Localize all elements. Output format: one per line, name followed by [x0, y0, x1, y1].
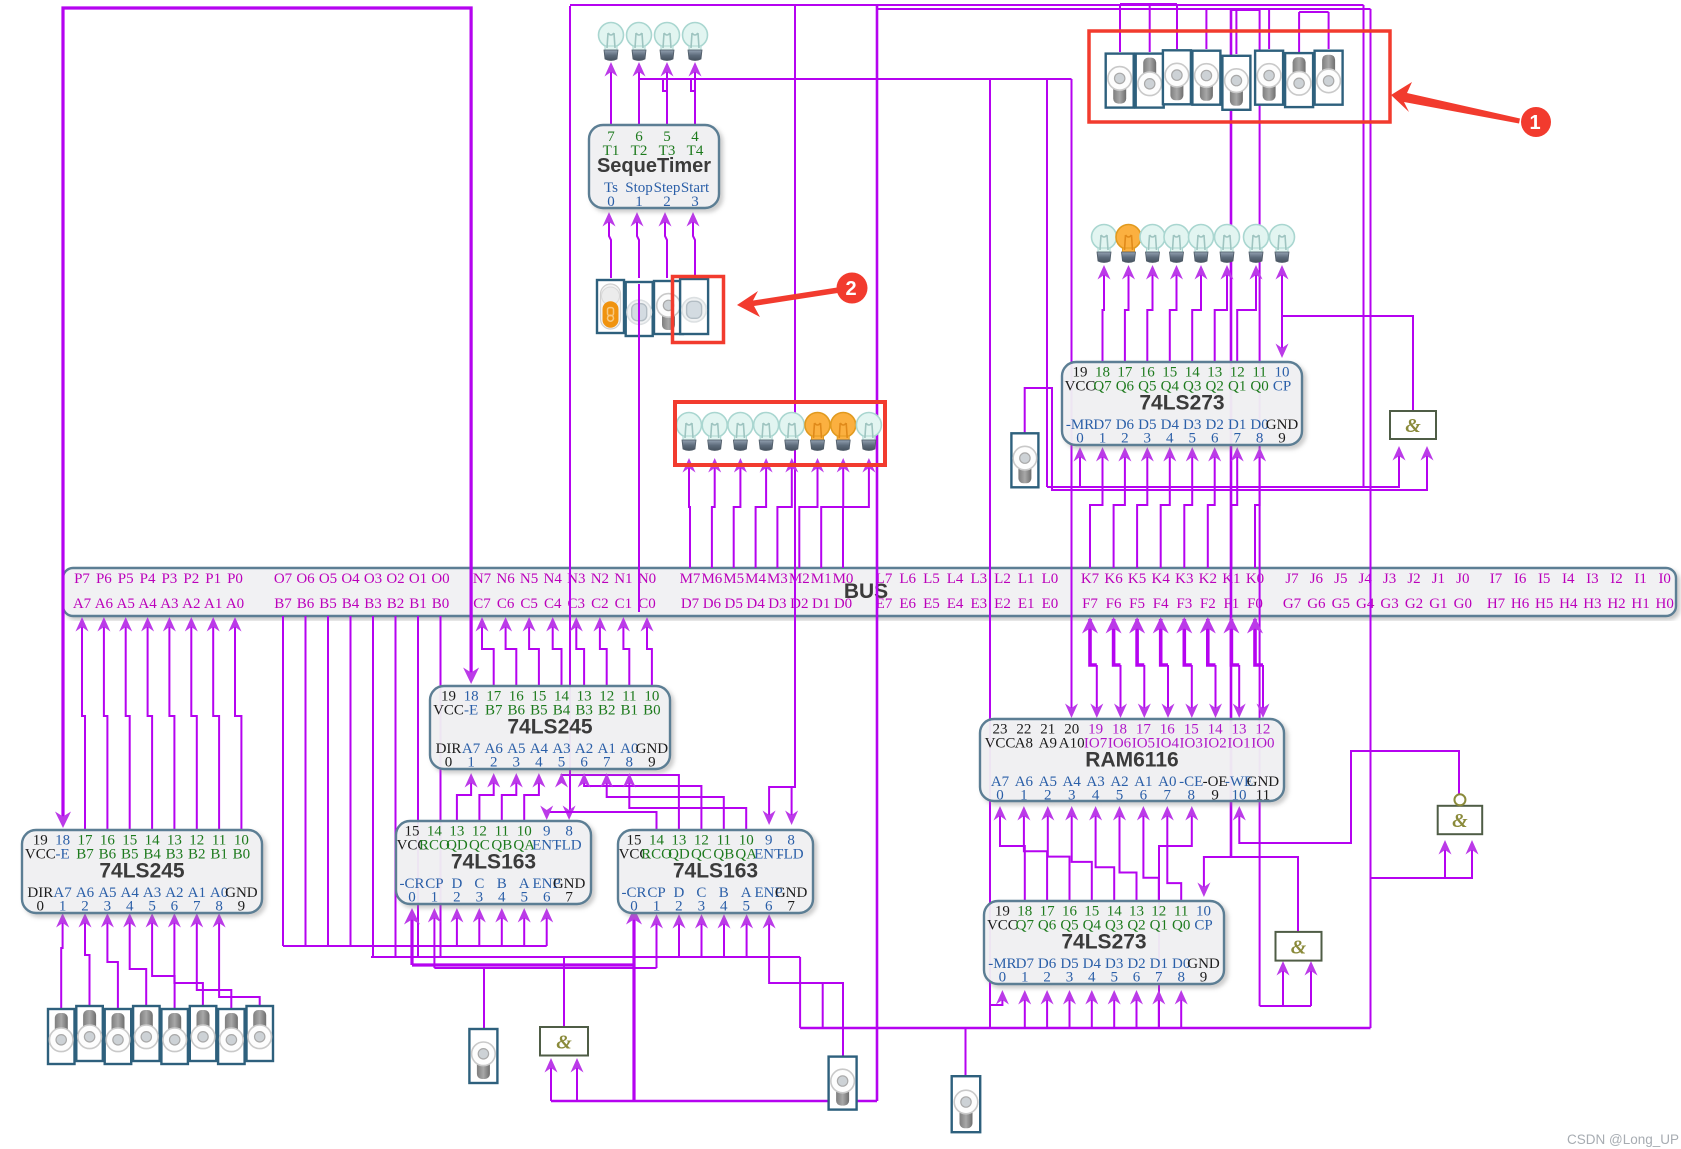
- svg-text:VCC: VCC: [25, 847, 56, 863]
- svg-text:Q6: Q6: [1116, 379, 1135, 395]
- wire net G1-feed vertical x1047: [1046, 79, 1048, 487]
- svg-text:Q1: Q1: [1228, 379, 1246, 395]
- wire rail y878 to G2 inputs: [1371, 840, 1479, 878]
- svg-text:I4: I4: [1562, 571, 1575, 587]
- svg-text:Q7: Q7: [1093, 379, 1112, 395]
- wire U5 Q2 to U3 A6: [479, 773, 500, 821]
- wire rail y1028 bottom right: [800, 1027, 1370, 1029]
- red annotation arrow 2: [737, 273, 868, 318]
- switch S2 (Stop) button: [626, 282, 653, 336]
- wire net long vertical x1259 from top to 74LS273 U8 area: [1259, 10, 1261, 1006]
- svg-text:3: 3: [1066, 970, 1074, 986]
- wire U5 Q3 to U3 A7: [457, 773, 478, 821]
- wire tap rail to U8 D7: [1018, 990, 1031, 1028]
- wire switch SW7 to U2 A0: [213, 913, 260, 1006]
- wire switch S11 to G1 input b: [1025, 388, 1434, 490]
- chip U5 74LS163: [396, 821, 591, 906]
- svg-text:74LS245: 74LS245: [99, 860, 185, 883]
- wire net top rail y9: [877, 8, 1371, 10]
- wire net T-rail horizontal y79 from SequeTimer T2: [639, 78, 1072, 80]
- wire bidir U7 IO6 leg: [1114, 665, 1127, 718]
- red annotation box 1: [1089, 31, 1390, 122]
- wire net top rail y5: [570, 4, 1364, 6]
- wire net -LD2 from top rail x795: [785, 5, 798, 825]
- svg-text:H2: H2: [1607, 596, 1625, 612]
- svg-text:11: 11: [1256, 788, 1270, 804]
- svg-text:2: 2: [845, 278, 856, 300]
- svg-text:4: 4: [1166, 431, 1174, 447]
- svg-text:O5: O5: [319, 571, 337, 587]
- svg-text:O3: O3: [364, 571, 382, 587]
- wire SW bank sw7: [1298, 12, 1300, 52]
- wire tap G3 input a: [1277, 961, 1290, 1006]
- wire U4 Q4 to lamp LR3: [1170, 265, 1183, 362]
- wire U5 Q1 to U3 A5: [502, 773, 523, 821]
- svg-text:3: 3: [691, 194, 699, 210]
- watermark CSDN: [1567, 1132, 1679, 1147]
- lamp LM0: [677, 413, 702, 451]
- wire net CP U4 and lamp LR7: [1276, 265, 1289, 358]
- svg-text:IO1: IO1: [1227, 736, 1250, 752]
- switch bank SWL2: [105, 1009, 132, 1064]
- wire BUS K4 to U4 D4: [1161, 447, 1177, 568]
- wire rail y4 switches: [1120, 3, 1177, 5]
- svg-text:4: 4: [1088, 970, 1096, 986]
- wire tap G4 input b: [571, 1058, 584, 1101]
- svg-text:H0: H0: [1656, 596, 1674, 612]
- svg-text:5: 5: [520, 890, 528, 906]
- svg-text:N7: N7: [473, 571, 492, 587]
- wire U3 B7 to BUS C7: [476, 617, 494, 686]
- svg-text:H3: H3: [1583, 596, 1601, 612]
- wire net vertical x877 top rail to bottom rail: [876, 5, 879, 1101]
- wire BUS K1 to U4 D1: [1231, 447, 1244, 568]
- svg-text:74LS163: 74LS163: [451, 851, 536, 874]
- svg-text:VCC: VCC: [985, 736, 1016, 752]
- svg-text:P6: P6: [96, 571, 112, 587]
- wire bidir U7 IO2 leg: [1209, 665, 1222, 718]
- wire band Y2 to U6 inputs: [371, 956, 800, 958]
- wire tap band Y2 to U6 pin x724: [718, 914, 731, 957]
- svg-text:6: 6: [1140, 788, 1148, 804]
- red annotation arrow 1: [1391, 82, 1551, 137]
- wire bidir BUS F3 leg: [1176, 617, 1192, 665]
- wire tap rail to U8 D6: [1041, 990, 1054, 1028]
- svg-text:2: 2: [663, 194, 671, 210]
- svg-text:Q1: Q1: [1150, 918, 1168, 934]
- svg-text:-E: -E: [464, 703, 478, 719]
- svg-text:N5: N5: [520, 571, 538, 587]
- wire U3 B5 to BUS C5: [523, 617, 539, 686]
- svg-text:CP: CP: [1273, 379, 1291, 395]
- svg-text:9: 9: [1278, 431, 1286, 447]
- wire bidir BUS F2 leg: [1200, 617, 1216, 665]
- svg-text:K4: K4: [1152, 571, 1171, 587]
- wire tap band Y1 to U5 pin x546: [540, 908, 553, 946]
- svg-text:9: 9: [648, 755, 656, 771]
- lamp LR2: [1140, 225, 1165, 263]
- svg-text:M6: M6: [701, 571, 722, 587]
- wire tap band Y2 to U6 pin x701: [695, 914, 708, 957]
- wire BUS B5 down: [327, 616, 329, 946]
- wire switch S3 to SequeTimer pin2: [659, 212, 672, 278]
- wire switch S9 to CP band: [483, 968, 485, 1029]
- svg-text:L2: L2: [994, 571, 1011, 587]
- switch bank SWL4: [161, 1009, 188, 1064]
- svg-text:7: 7: [603, 755, 611, 771]
- wire tap band Y1 to U5 pin x479: [473, 908, 486, 946]
- wire bidir BUS F6 leg: [1106, 617, 1122, 665]
- wire U6 Q1 to U3 A1: [600, 773, 724, 830]
- svg-text:P3: P3: [161, 571, 177, 587]
- svg-text:F6: F6: [1106, 596, 1122, 612]
- svg-text:4: 4: [126, 899, 134, 915]
- chip U6 74LS163: [618, 830, 813, 915]
- wire switch SW3 to U2 A4: [123, 913, 146, 1006]
- svg-text:F7: F7: [1082, 596, 1098, 612]
- wire BUS K6 to U4 D6: [1114, 447, 1132, 568]
- lamp LM3: [754, 413, 779, 451]
- svg-text:B3: B3: [364, 596, 382, 612]
- wire Stop net over switch: [638, 284, 640, 566]
- svg-text:IO3: IO3: [1180, 736, 1203, 752]
- wire G2 output to U7 -WE: [1233, 751, 1459, 843]
- wire SequeTimer T4 to lamp: [689, 62, 702, 125]
- svg-text:&: &: [1291, 936, 1307, 958]
- svg-text:F2: F2: [1200, 596, 1216, 612]
- svg-text:&: &: [1405, 415, 1421, 437]
- svg-text:6: 6: [543, 890, 551, 906]
- svg-text:D7: D7: [681, 596, 700, 612]
- switch bank SWT2: [1163, 50, 1191, 104]
- svg-text:1: 1: [59, 899, 67, 915]
- wire net -E loop to U2/U3 pin18: [55, 8, 479, 828]
- wire rail y12 sw7 sw8: [1299, 11, 1329, 13]
- svg-text:L5: L5: [923, 571, 940, 587]
- svg-text:6: 6: [580, 755, 588, 771]
- svg-text:8: 8: [1187, 788, 1195, 804]
- svg-text:A10: A10: [1059, 736, 1085, 752]
- svg-text:A4: A4: [138, 596, 157, 612]
- lamp LM7: [856, 413, 881, 451]
- wire BUS B2 down: [395, 616, 397, 957]
- switch bank SWL6: [218, 1009, 245, 1064]
- wire SW bank sw6: [1268, 9, 1270, 49]
- svg-text:6: 6: [171, 899, 179, 915]
- svg-text:6: 6: [1211, 431, 1219, 447]
- lamp LR4: [1189, 225, 1214, 263]
- svg-text:P1: P1: [205, 571, 221, 587]
- wire switch SW6 to U2 A1: [190, 913, 231, 1009]
- svg-text:IO2: IO2: [1203, 736, 1226, 752]
- svg-text:&: &: [556, 1031, 572, 1053]
- svg-text:A6: A6: [95, 596, 114, 612]
- chip U7 RAM6116: [980, 719, 1284, 804]
- svg-text:K6: K6: [1104, 571, 1123, 587]
- NAND gate G2: [1438, 794, 1483, 834]
- wire BUS B7 down: [282, 616, 284, 946]
- wire bidir U7 IO5 leg: [1138, 665, 1151, 718]
- wire tap band Y2 to U6 pin x746: [740, 914, 753, 957]
- wire bidir U7 IO7 leg: [1090, 665, 1103, 718]
- wire bidir BUS F7 leg: [1082, 617, 1098, 665]
- wire tap -CR U5: [404, 908, 420, 965]
- wire SequeTimer T3 to lamp: [661, 62, 674, 125]
- svg-text:H4: H4: [1559, 596, 1578, 612]
- switch bank SWT3: [1192, 51, 1220, 105]
- wire tap band Y1 to U5 pin x456: [450, 908, 463, 946]
- wire BUS M4 to lamp LM3: [756, 458, 773, 568]
- wire U8 Q4 to U7 A4: [1065, 806, 1092, 901]
- svg-text:L3: L3: [970, 571, 987, 587]
- svg-text:C2: C2: [591, 596, 609, 612]
- wire tap CP U5: [428, 908, 441, 968]
- wire branch to U6 ENT: [763, 787, 795, 825]
- red annotation box 3 middle lamps: [675, 402, 885, 465]
- svg-text:K2: K2: [1199, 571, 1217, 587]
- wire U4 Q7 to lamp LR0: [1098, 265, 1111, 362]
- svg-text:M3: M3: [767, 571, 788, 587]
- wire tap band Y2 to U6 pin x679: [673, 914, 686, 957]
- svg-text:7: 7: [1155, 970, 1163, 986]
- wire U3 B0 to BUS C0: [641, 617, 654, 686]
- wire bidir U7 IO3 leg: [1185, 665, 1198, 718]
- svg-text:P7: P7: [74, 571, 90, 587]
- svg-text:3: 3: [1068, 788, 1076, 804]
- svg-text:2: 2: [490, 755, 498, 771]
- svg-text:4: 4: [720, 899, 728, 915]
- wire net vertical x1371 to AND G2 input rail: [1370, 9, 1372, 878]
- svg-text:I7: I7: [1490, 571, 1503, 587]
- svg-text:L0: L0: [1042, 571, 1059, 587]
- svg-text:2: 2: [81, 899, 89, 915]
- svg-text:1: 1: [1020, 788, 1028, 804]
- svg-text:D5: D5: [725, 596, 743, 612]
- svg-text:B6: B6: [297, 596, 315, 612]
- svg-text:A2: A2: [182, 596, 200, 612]
- svg-text:H7: H7: [1487, 596, 1506, 612]
- svg-text:G0: G0: [1454, 596, 1472, 612]
- lamp LR0: [1092, 225, 1117, 263]
- switch bank SWL5: [190, 1006, 217, 1061]
- svg-text:M4: M4: [745, 571, 766, 587]
- svg-text:7: 7: [193, 899, 201, 915]
- svg-text:Q0: Q0: [1172, 918, 1190, 934]
- svg-text:CSDN @Long_UP: CSDN @Long_UP: [1567, 1132, 1679, 1147]
- wire switch SW1 to U2 A6: [79, 913, 92, 1006]
- wire tap rail to U8 D0: [1175, 990, 1188, 1028]
- svg-text:A7: A7: [73, 596, 92, 612]
- wire bidir BUS F1 leg: [1223, 617, 1239, 665]
- svg-text:0: 0: [996, 788, 1004, 804]
- svg-text:74LS273: 74LS273: [1139, 392, 1224, 415]
- wire net -CR vertical U6: [626, 908, 642, 1101]
- wire BUS B3 down: [372, 616, 374, 957]
- svg-text:B0: B0: [643, 703, 661, 719]
- svg-text:&: &: [1452, 810, 1468, 832]
- wire switch S1 to SequeTimer pin0: [603, 212, 616, 278]
- wire net vertical x1363 to AND G1 input rail: [1363, 5, 1365, 487]
- wire bidir BUS F0 leg: [1247, 617, 1263, 665]
- lamp LM1: [702, 413, 727, 451]
- svg-text:I1: I1: [1634, 571, 1647, 587]
- svg-text:B5: B5: [319, 596, 337, 612]
- lamp LT2 (T3): [655, 23, 680, 61]
- wire BUS K0 to U4 D0: [1253, 447, 1266, 568]
- wire net SequeTimer Stop wire down to BUS: [638, 334, 640, 612]
- svg-text:C0: C0: [638, 596, 656, 612]
- switch S4 (Start) button: [680, 279, 708, 334]
- svg-text:-E: -E: [56, 847, 70, 863]
- wire U3 B1 to BUS C1: [617, 617, 630, 686]
- svg-text:8: 8: [1177, 970, 1185, 986]
- wire SequeTimer T1 to lamp: [605, 62, 618, 125]
- wire tap G4 input a: [545, 1058, 558, 1101]
- wire SequeTimer T2 to lamp: [633, 62, 646, 125]
- wire band Y1 to U5 inputs: [283, 945, 547, 947]
- svg-text:4: 4: [535, 755, 543, 771]
- wire SW bank sw3: [1176, 4, 1178, 49]
- switch S10: [829, 1057, 857, 1110]
- svg-text:J6: J6: [1310, 571, 1324, 587]
- wire SW bank sw5: [1235, 10, 1237, 54]
- svg-text:8: 8: [215, 899, 223, 915]
- switch bank SWT4: [1222, 56, 1250, 110]
- svg-text:0: 0: [630, 899, 638, 915]
- switch S1 (Ts) toggle on: [597, 280, 624, 333]
- svg-text:D6: D6: [703, 596, 722, 612]
- wire BUS K3 to U4 D3: [1184, 447, 1199, 568]
- svg-text:I6: I6: [1514, 571, 1527, 587]
- red annotation box 2: [673, 277, 724, 343]
- lamp LR3: [1164, 225, 1189, 263]
- svg-text:5: 5: [742, 899, 750, 915]
- svg-text:74LS245: 74LS245: [507, 716, 593, 739]
- switch bank SWL3: [133, 1006, 160, 1061]
- switch S3 (Step) knob: [654, 281, 683, 334]
- wire tap rail to U8 D3: [1108, 990, 1121, 1028]
- svg-text:1: 1: [431, 890, 439, 906]
- wire SW bank sw8: [1328, 12, 1330, 49]
- wire U8 Q5 to U7 A5: [1041, 806, 1069, 901]
- wire U2 B6 to BUS A6: [97, 617, 110, 830]
- svg-text:VCC: VCC: [987, 918, 1018, 934]
- svg-text:I0: I0: [1658, 571, 1671, 587]
- AND gate G4: [540, 1027, 588, 1056]
- svg-text:M2: M2: [789, 571, 810, 587]
- lamp LM6: [831, 413, 856, 451]
- lamp LR1: [1116, 225, 1141, 263]
- svg-text:5: 5: [558, 755, 566, 771]
- svg-text:I5: I5: [1538, 571, 1551, 587]
- wire G1 output to CP net: [1282, 316, 1413, 411]
- svg-text:B4: B4: [342, 596, 360, 612]
- wire switch SW2 to U2 A5: [101, 913, 118, 1009]
- BUS backbone: [63, 568, 1676, 616]
- svg-text:F3: F3: [1176, 596, 1192, 612]
- svg-text:9: 9: [238, 899, 246, 915]
- svg-text:Q6: Q6: [1038, 918, 1057, 934]
- svg-text:N2: N2: [591, 571, 609, 587]
- svg-text:Q7: Q7: [1016, 918, 1035, 934]
- wire U6 RCO to U5 ENT: [540, 806, 656, 831]
- lamp LM5: [805, 413, 830, 451]
- chip U8 74LS273: [984, 901, 1224, 986]
- svg-text:F5: F5: [1129, 596, 1145, 612]
- svg-text:1: 1: [635, 194, 643, 210]
- wire SW bank sw1: [1119, 4, 1121, 52]
- wire U8 Q1 to U7 A1: [1137, 806, 1159, 901]
- lamp LR5: [1215, 225, 1240, 263]
- wire U2 B4 to BUS A4: [141, 617, 154, 830]
- wire switch SW4 to U2 A3: [146, 913, 175, 1009]
- svg-text:2: 2: [1121, 431, 1129, 447]
- wire U6 Q0 to U3 A0: [623, 773, 746, 830]
- wire rail y487 to G1 input a: [1047, 446, 1406, 487]
- wire tap rail to U8 D4: [1085, 990, 1098, 1028]
- wire U3 B4 to BUS C4: [546, 617, 561, 686]
- svg-text:10: 10: [1232, 788, 1247, 804]
- lamp LM2: [728, 413, 753, 451]
- svg-text:E4: E4: [947, 596, 964, 612]
- svg-text:SequeTimer: SequeTimer: [597, 155, 711, 177]
- svg-text:D1: D1: [812, 596, 830, 612]
- svg-text:8: 8: [1256, 431, 1264, 447]
- svg-text:8: 8: [626, 755, 634, 771]
- wire U2 B0 to BUS A0: [229, 617, 242, 830]
- svg-text:1: 1: [467, 755, 475, 771]
- switch bank SWL7: [247, 1006, 274, 1061]
- wire G4 output to band Y2: [563, 957, 565, 1027]
- AND gate G1: [1390, 411, 1436, 439]
- wire BUS M3 to lamp LM4: [777, 458, 798, 568]
- lamp LT0 (T1): [599, 23, 624, 61]
- wire bidir BUS F4 leg: [1153, 617, 1169, 665]
- svg-text:J5: J5: [1334, 571, 1347, 587]
- svg-text:M5: M5: [723, 571, 744, 587]
- svg-text:O0: O0: [431, 571, 449, 587]
- svg-text:6: 6: [765, 899, 773, 915]
- switch bank SWT0: [1106, 54, 1134, 108]
- wire tap rail to U8 -MR: [990, 990, 1009, 1028]
- wire tap rail to U8 D5: [1063, 990, 1076, 1028]
- svg-text:C4: C4: [544, 596, 562, 612]
- svg-text:G4: G4: [1356, 596, 1375, 612]
- svg-text:O1: O1: [409, 571, 427, 587]
- wire U8 Q0 to U7 A0: [1161, 806, 1181, 901]
- wire BUS B0 down: [440, 616, 442, 957]
- svg-text:VCC: VCC: [433, 703, 464, 719]
- svg-text:L6: L6: [899, 571, 916, 587]
- wire U8 Q6 to U7 A6: [1017, 806, 1047, 901]
- svg-text:3: 3: [1144, 431, 1152, 447]
- svg-text:E3: E3: [970, 596, 987, 612]
- svg-text:N4: N4: [544, 571, 563, 587]
- svg-text:K5: K5: [1128, 571, 1146, 587]
- svg-text:2: 2: [675, 899, 683, 915]
- svg-text:G1: G1: [1429, 596, 1447, 612]
- svg-text:B0: B0: [233, 847, 251, 863]
- wire BUS M7 to lamp LM0: [683, 458, 696, 568]
- svg-text:J2: J2: [1407, 571, 1420, 587]
- wire net long vertical x1231 from switch rail to CP rail: [1230, 10, 1233, 857]
- switch bank SWT7: [1315, 51, 1343, 105]
- svg-text:CP: CP: [1194, 918, 1212, 934]
- svg-text:3: 3: [513, 755, 521, 771]
- svg-text:1: 1: [1529, 112, 1540, 134]
- wire switch S10 to U6 ENP: [763, 914, 843, 1056]
- wire U8 Q3 to U7 A3: [1089, 806, 1114, 901]
